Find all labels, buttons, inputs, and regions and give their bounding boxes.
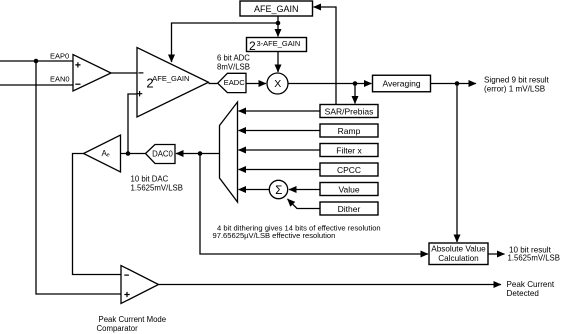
svg-text:EAP0: EAP0 [50, 52, 69, 61]
wire CPCC to mux [239, 169, 321, 171]
svg-text:AFE_GAIN: AFE_GAIN [254, 4, 299, 14]
svg-text:Dither: Dither [338, 204, 361, 214]
wire DAC junction down and right to Absolute Value Calculation [200, 154, 428, 255]
wire EAP0 junction down to comparator plus input [36, 61, 121, 294]
svg-text:Σ: Σ [275, 185, 282, 197]
svg-text:EAN0: EAN0 [50, 75, 70, 84]
svg-text:8mV/LSB: 8mV/LSB [217, 63, 250, 72]
wire DAC0 flag to Ae amplifier [121, 153, 146, 155]
node junction on DAC line at x200 [198, 151, 203, 156]
svg-text:Detected: Detected [507, 289, 539, 298]
wire SAR/Prebias to mux [239, 110, 321, 112]
svg-text:(error) 1 mV/LSB: (error) 1 mV/LSB [484, 85, 545, 94]
label Signed 9 bit result (error) 1 mV/LSB [484, 76, 550, 94]
svg-text:3-AFE_GAIN: 3-AFE_GAIN [257, 39, 301, 48]
box Absolute Value Calculation [429, 243, 488, 265]
wire gain block down into multiplier [277, 52, 279, 73]
register box AFE_GAIN [240, 1, 313, 16]
summer sigma [269, 180, 287, 198]
svg-text:2: 2 [249, 39, 256, 53]
wire multiplier to Averaging box [288, 83, 372, 85]
svg-text:CPCC: CPCC [337, 165, 361, 175]
box Filter x [320, 144, 378, 157]
node junction after Averaging [455, 81, 460, 86]
svg-text:10 bit DAC: 10 bit DAC [131, 175, 169, 184]
wire junction down into gain block [277, 23, 279, 37]
label 6 bit ADC 8mV/LSB [217, 54, 250, 72]
node junction below AFE_GAIN box [276, 21, 281, 26]
svg-text:Value: Value [338, 185, 359, 195]
flag EADC [218, 73, 246, 92]
wire comparator output arrow [159, 284, 502, 286]
box Averaging [373, 75, 431, 92]
wire EADC to multiplier [247, 83, 267, 85]
svg-text:Absolute Value: Absolute Value [431, 245, 486, 254]
comparator peak current mode [121, 266, 159, 304]
node junction on DAC line at x128 [126, 151, 131, 156]
svg-text:SAR/Prebias: SAR/Prebias [325, 107, 374, 117]
label 4 bit dithering note [213, 224, 381, 241]
svg-text:Comparator: Comparator [97, 324, 139, 333]
svg-text:1.5625mV/LSB: 1.5625mV/LSB [131, 184, 183, 193]
svg-text:AFE_GAIN: AFE_GAIN [152, 74, 189, 83]
svg-text:Filter x: Filter x [336, 146, 362, 156]
wire error amplifier output to AFE gain amplifier minus input [111, 72, 137, 74]
op-amp U1 error amplifier [73, 55, 111, 92]
wire Dither to summer [288, 199, 321, 209]
svg-text:97.65625µV/LSB effective resol: 97.65625µV/LSB effective resolution [213, 231, 336, 240]
label Peak Current Detected [507, 280, 555, 298]
svg-text:EADC: EADC [224, 78, 246, 87]
op-amp U2 AFE gain amplifier 2^AFE_GAIN [137, 48, 209, 118]
label Peak Current Mode Comparator [97, 315, 167, 333]
wire junction down to Absolute Value Calculation box [456, 84, 458, 243]
wire arrow down from main line into SAR/Prebias [354, 84, 356, 104]
wire AFE amp apex to EADC flag [209, 83, 218, 85]
node junction on EAP0 line [34, 59, 39, 64]
wire Averaging output [431, 83, 458, 85]
wire Ramp to mux [239, 130, 321, 132]
svg-text:Peak Current Mode: Peak Current Mode [99, 315, 167, 324]
svg-text:6 bit ADC: 6 bit ADC [217, 54, 250, 63]
wire Filter x to mux [239, 149, 321, 151]
box CPCC [320, 163, 378, 176]
svg-text:Averaging: Averaging [382, 79, 420, 89]
svg-text:Ramp: Ramp [338, 126, 361, 136]
svg-text:1.5625mV/LSB: 1.5625mV/LSB [508, 254, 560, 263]
box Value [320, 183, 378, 196]
wire AFE_GAIN box bottom to junction [277, 16, 279, 23]
wire Ae output down to comparator minus input [73, 154, 122, 275]
wire mux output to DAC0 flag [176, 153, 220, 155]
svg-text:Signed 9 bit result: Signed 9 bit result [484, 76, 550, 85]
svg-text:X: X [274, 78, 281, 90]
wire signed result output arrow [457, 83, 476, 85]
wire EAN0 input line [0, 84, 73, 86]
mux trapezoid [220, 102, 238, 202]
wire Value to summer [289, 189, 320, 191]
wire Absolute Value Calculation output arrow [488, 253, 505, 255]
node junction on main line at x355 [353, 81, 358, 86]
svg-text:Peak Current: Peak Current [507, 280, 555, 289]
wire junction up to AFE amp plus input [128, 94, 137, 154]
svg-text:DAC0: DAC0 [152, 149, 173, 158]
wire junction to AFE gain amplifier top edge [172, 23, 279, 62]
label 10 bit DAC 1.5625mV/LSB [131, 175, 183, 193]
box Ramp [320, 124, 378, 137]
svg-text:Calculation: Calculation [438, 254, 479, 263]
svg-text:e: e [107, 153, 110, 159]
box Dither [320, 202, 378, 215]
wire EAP0 input line [0, 60, 73, 62]
multiplier X [267, 73, 288, 94]
wire summer to mux [239, 189, 270, 191]
amplifier Ae [84, 135, 121, 172]
flag DAC0 [146, 145, 176, 164]
gain block 2^(3-AFE_GAIN) [247, 38, 307, 54]
wire SAR/Prebias feedback up to AFE_GAIN box [314, 7, 337, 105]
label 10 bit result 1.5625mV/LSB [508, 246, 560, 263]
box SAR/Prebias [320, 105, 378, 118]
